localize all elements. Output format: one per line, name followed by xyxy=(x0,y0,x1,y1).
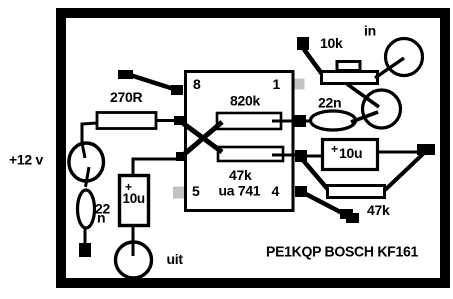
svg-text:10u: 10u xyxy=(123,191,145,206)
svg-text:n: n xyxy=(97,210,105,226)
wire pad to pin 8 pad (diagonal) xyxy=(127,74,177,90)
wire pot bottom to mid connector center xyxy=(347,84,379,107)
pad pin 8 xyxy=(171,85,183,95)
svg-text:+12 v: +12 v xyxy=(9,152,43,168)
resistor 270R xyxy=(97,113,156,129)
wire 47k right to pad xyxy=(272,154,300,157)
unused pin 1 pad (gray) xyxy=(295,79,305,90)
svg-text:PE1KQP BOSCH KF161: PE1KQP BOSCH KF161 xyxy=(266,244,418,261)
wire through circle to 22n xyxy=(86,167,90,187)
wire X diagonal pad-lower to 820k left xyxy=(181,122,222,157)
pad IC left lower xyxy=(176,152,187,161)
connector J1 circle (left) xyxy=(69,143,104,181)
wire 22n to ground pad xyxy=(84,227,87,246)
capacitor 22n left (oval) xyxy=(78,190,95,228)
connector J4 uit xyxy=(116,242,152,278)
svg-text:270R: 270R xyxy=(110,89,142,105)
wire pad to 22n oval xyxy=(305,120,312,123)
pad 10k feed (top right) xyxy=(297,37,309,50)
svg-text:10k: 10k xyxy=(320,35,343,51)
svg-text:5: 5 xyxy=(192,183,200,199)
capacitor 10u left xyxy=(120,176,149,226)
svg-text:1: 1 xyxy=(273,76,281,92)
potentiometer wiper tab xyxy=(337,62,360,71)
svg-text:in: in xyxy=(364,23,376,39)
resistor 47k output xyxy=(328,186,385,198)
svg-text:10u: 10u xyxy=(339,145,362,161)
ground pad left xyxy=(79,243,91,257)
wire 270R right to pin pad xyxy=(156,119,180,122)
wire pad to pot (diagonal) xyxy=(303,48,322,74)
svg-text:47k: 47k xyxy=(367,202,390,218)
svg-text:ua 741: ua 741 xyxy=(219,183,261,199)
svg-text:8: 8 xyxy=(193,76,201,92)
capacitor 10u right xyxy=(323,140,378,170)
pad IC right upper xyxy=(294,115,306,127)
op-amp U1 ua741 body xyxy=(186,72,294,211)
wire right pad down to 47k right (diagonal) xyxy=(385,153,424,190)
resistor 820k xyxy=(217,113,281,129)
pad IC right mid xyxy=(295,150,307,162)
wire pot right to in connector center xyxy=(375,58,404,78)
unused pin 5 pad (gray) xyxy=(173,187,184,199)
svg-text:820k: 820k xyxy=(230,93,260,109)
svg-text:uit: uit xyxy=(167,251,184,267)
wire 10u right to right pad xyxy=(377,151,420,154)
wire 10u bottom to uit connector xyxy=(132,225,135,256)
resistor 47k feedback xyxy=(218,147,283,161)
wire 10u top to IC pad xyxy=(133,159,178,176)
connector J2 in xyxy=(386,39,423,76)
pad IC right lower xyxy=(295,186,307,197)
wire X diagonal pad-upper to 47k left xyxy=(180,121,222,152)
capacitor 22n right (oval) xyxy=(311,111,356,130)
svg-text:+: + xyxy=(331,142,338,156)
wire IC pad to 10u right xyxy=(306,155,322,158)
connector J3 mid right xyxy=(363,90,401,128)
wire 270R left down to transistor circle xyxy=(82,123,97,158)
pad IC left upper xyxy=(174,116,185,125)
potentiometer 10k body xyxy=(322,72,378,84)
wire IC mid pad down to 47k left (diagonal) xyxy=(302,159,331,193)
wire 22n oval to mid connector center xyxy=(351,112,378,122)
pad right (output rail) xyxy=(417,144,435,155)
pad +12v feed (top left) xyxy=(118,70,133,79)
svg-text:47k: 47k xyxy=(229,167,252,183)
ground pad bottom right xyxy=(340,209,353,219)
svg-text:4: 4 xyxy=(272,183,280,199)
svg-text:22n: 22n xyxy=(318,95,341,111)
wire 820k right to pad xyxy=(272,120,298,123)
wire IC lower pad to ground blob (diagonal) xyxy=(302,192,346,215)
